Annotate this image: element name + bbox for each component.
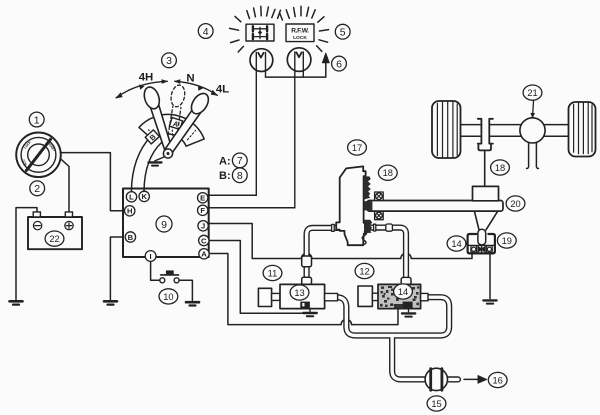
svg-text:14: 14: [398, 287, 408, 297]
svg-text:14: 14: [451, 239, 461, 249]
push switch 10 contacts and plunger: [160, 270, 179, 282]
axle joint flange left "]": [478, 119, 482, 144]
wire: valve 13 to chassis ground: [309, 309, 311, 312]
hose: valve 15 outlet stub: [445, 376, 459, 382]
svg-text:N: N: [186, 73, 194, 85]
arrow: outlet 16 direction: [464, 376, 487, 384]
svg-text:4: 4: [203, 26, 209, 38]
battery terminal nub positive: [65, 212, 72, 217]
wire: terminal F to RFW LOCK bulb: [209, 207, 295, 209]
circled label 14 (front actuator valve): [447, 236, 466, 251]
selector arc N-4L (double arrow): [175, 81, 218, 95]
terminal F: [198, 205, 208, 215]
ground (valve 14): [402, 313, 415, 316]
circled label 11 (valve 13 connector): [263, 265, 282, 280]
wire: shift switch to terminal L: [131, 136, 151, 192]
terminal B: [125, 232, 135, 242]
svg-text:3: 3: [166, 55, 172, 67]
wire: terminal E to 4WD indicator bulb: [209, 194, 257, 196]
wire: bulbs common feed to power arrow 6: [266, 62, 326, 77]
wire: battery negative to chassis ground: [16, 208, 37, 300]
differential output shaft (cut): [527, 142, 539, 168]
switch box A on sector: [169, 118, 182, 131]
solenoid valve 13 connector (item 11): [258, 288, 271, 306]
svg-text:J: J: [201, 222, 205, 231]
hose network white inner strokes: [307, 228, 458, 380]
circled label 10 (push switch): [159, 289, 178, 304]
circled 8: [232, 168, 247, 183]
solenoid valve 14 connector (item 12): [358, 286, 372, 306]
shift lever 4H (left, solid): [142, 85, 172, 150]
circled label 13 (solenoid valve): [290, 285, 309, 300]
front actuator solenoid valve 19 outer box: [468, 234, 495, 253]
ignition switch 1: [16, 133, 61, 178]
indicator lamp box 5 (R.F.W. LOCK): [286, 24, 314, 42]
svg-text:4H: 4H: [139, 72, 154, 84]
svg-text:H: H: [127, 207, 132, 216]
arc arrowheads: [115, 79, 218, 98]
svg-text:L: L: [129, 193, 134, 202]
valve 13 outlet stub: [325, 293, 338, 300]
bulb 5 filament / socket: [295, 52, 304, 208]
solenoid valve 13 body: [280, 284, 325, 308]
4WD icon inside box 4: [253, 26, 267, 39]
circled label 6 (power feed): [332, 56, 347, 71]
svg-text:18: 18: [383, 168, 393, 178]
circled label 22 (battery): [45, 231, 64, 246]
front axle shaft right segment: [545, 125, 569, 137]
valve 13 connector stub: [272, 293, 280, 300]
circled label 15 (one-way valve): [427, 396, 446, 411]
hose flange at housing left port: [332, 224, 335, 231]
terminal A: [199, 249, 209, 259]
wire: terminal I down to push switch 10: [151, 261, 160, 280]
svg-text:I: I: [150, 252, 152, 261]
terminal I: [145, 251, 156, 262]
svg-text:F: F: [200, 206, 205, 215]
shift lever 4L (right, solid): [165, 90, 212, 153]
valve 14 solenoid core (dark mark): [403, 302, 413, 309]
svg-text:R.F.W.: R.F.W.: [291, 28, 309, 35]
svg-text:B:: B:: [219, 170, 231, 182]
svg-text:18: 18: [495, 163, 505, 173]
circled label 3 (shift lever): [162, 53, 177, 68]
shift lever N position (dashed): [166, 84, 186, 148]
circled label 17 (transfer housing): [348, 140, 367, 155]
circled label 4 (4WD lamp): [198, 24, 213, 39]
svg-text:20: 20: [510, 199, 520, 209]
transfer case / free wheel housing 17 : propeller shaft: [367, 201, 503, 212]
indicator bulb for lamp 5: [287, 48, 311, 72]
svg-text:22: 22: [49, 234, 59, 244]
svg-text:4L: 4L: [216, 84, 229, 96]
bearing (lower) with cross: [375, 211, 384, 219]
arrow 6 (power feed): [322, 53, 329, 63]
svg-text:9: 9: [161, 219, 167, 231]
circled label 5 (RFW lock lamp): [335, 24, 350, 39]
terminal E: [198, 193, 208, 203]
front axle right tire: [569, 102, 596, 157]
housing 17 bellows bumps (lower right): [362, 232, 366, 245]
wire: battery positive to ignition switch: [60, 158, 69, 212]
wire/shaft: front axle joint down to actuator 20: [484, 151, 486, 186]
svg-text:5: 5: [340, 27, 346, 39]
wire: valve 14 to chassis ground: [408, 309, 410, 312]
ignition switch key slash: [26, 139, 50, 170]
radiating rays around lamp boxes: [230, 6, 329, 52]
valve 14 connector stub: [372, 293, 378, 300]
wire: terminal C to solenoid valve 13: [209, 241, 303, 314]
svg-text:13: 13: [294, 288, 304, 298]
hose coupler on valve-13 riser (lower): [302, 277, 312, 285]
battery terminal nub negative: [33, 212, 40, 217]
circled label 21 (front differential): [523, 85, 542, 100]
transfer housing 17 main body: [336, 166, 365, 245]
housing 17 spline strip lower: [364, 220, 372, 233]
actuator 20 top box: [473, 186, 499, 200]
svg-text:2: 2: [34, 183, 40, 195]
wire: push switch 10 to chassis ground: [179, 280, 192, 300]
front differential 21: [520, 118, 545, 143]
selector arc 4H-N (double arrow): [116, 81, 167, 97]
housing 17 spline strip middle (behind shaft): [364, 201, 372, 210]
battery negative symbol: [33, 221, 41, 229]
bearing (upper) with cross: [375, 192, 384, 200]
ground (battery negative): [10, 301, 23, 304]
svg-text:17: 17: [352, 143, 362, 153]
svg-text:1: 1: [34, 114, 40, 126]
svg-text:21: 21: [527, 88, 537, 98]
hose: transfer housing left port down to valve 13: [307, 228, 340, 286]
svg-text:C: C: [201, 236, 207, 245]
svg-text:12: 12: [359, 266, 369, 276]
battery 22 body: [28, 217, 82, 249]
hose: tee branch down to one-way valve 15: [392, 337, 428, 380]
svg-text:16: 16: [493, 375, 503, 385]
wire: pivot to chassis ground: [155, 157, 165, 162]
hose coupler on housing right elbow: [386, 224, 393, 231]
svg-text:7: 7: [237, 155, 243, 167]
hose flange at housing right port: [374, 224, 376, 231]
indicator lamp box 4 (4WD icon): [246, 24, 274, 41]
circled label 19 (front actuator valve): [497, 233, 516, 248]
pointer line from label 21 to differential: [531, 101, 535, 118]
hose coupler on valve-14 riser: [401, 277, 411, 285]
circled label 2 (ignition switch circuit): [30, 181, 45, 196]
indicator bulb for lamp 4: [250, 49, 273, 72]
actuator 20 funnel to valve 19: [475, 212, 498, 230]
switch box B on sector: [145, 130, 160, 144]
valve 14 outlet stub: [421, 293, 428, 300]
terminal H: [125, 206, 135, 216]
circled label 18 (front drive shaft): [491, 160, 510, 175]
hose: valve 13 outlet to valve 14 outlet (bottom U run): [337, 297, 449, 335]
terminal J: [198, 221, 208, 231]
svg-text:6: 6: [336, 58, 342, 70]
actuator funnel neck capsule: [478, 229, 486, 245]
terminal L: [126, 192, 136, 202]
front axle left tire: [432, 101, 461, 158]
solenoid valve 14 body (mottled): [378, 284, 421, 308]
valve 19 inner detail: seat line, ports and core: [469, 245, 494, 252]
front axle shaft middle segment: [490, 125, 521, 137]
svg-text:15: 15: [431, 399, 441, 409]
ground (valve 19): [483, 300, 496, 303]
hose coupler on valve-13 riser (upper): [302, 256, 312, 267]
one-way valve 15 body: [425, 368, 447, 390]
ground (valve 13): [303, 313, 316, 316]
wire: control unit terminal B to chassis ground: [110, 237, 123, 300]
axle joint lower cup: [478, 145, 491, 151]
svg-text:B: B: [128, 233, 134, 242]
hose network (vacuum lines, double-line) : black outer strokes: [307, 228, 458, 380]
wire: ignition switch to control unit terminal H: [61, 153, 123, 211]
circled 7: [232, 153, 247, 168]
svg-text:A: A: [201, 250, 207, 259]
terminal C: [199, 235, 209, 245]
svg-text:E: E: [200, 194, 205, 203]
circled label 18 (center actuator): [378, 165, 397, 180]
circled label 16 (outlet): [488, 372, 507, 387]
svg-text:19: 19: [502, 236, 512, 246]
circled label 1 (ignition switch): [29, 112, 44, 127]
ground (terminal B): [104, 301, 117, 304]
svg-text:11: 11: [268, 268, 278, 278]
terminal K: [139, 191, 149, 201]
circled label 12 (valve 14 connector): [355, 263, 374, 278]
svg-text:A:: A:: [219, 155, 231, 167]
control unit 9 box: [123, 189, 209, 258]
circled label 14 (solenoid valve, rear): [394, 284, 413, 299]
wire: terminal J to front actuator solenoid valve 19 (with hose hops): [209, 224, 472, 259]
circled label 20 (front actuator): [506, 196, 525, 211]
svg-text:K: K: [141, 192, 147, 201]
wire: terminal A to solenoid valve 14 (with hose hop): [209, 254, 398, 325]
wire: valve 19 to chassis ground: [489, 254, 491, 299]
housing 17 spline/teeth strip upper: [364, 176, 371, 199]
shift lever sector band: [139, 114, 204, 146]
valve 13 solenoid core (dark mark): [300, 302, 310, 308]
ground (shift lever): [149, 162, 162, 165]
svg-text:LOCK: LOCK: [293, 35, 307, 41]
bulb 4 filament / socket: [256, 52, 265, 195]
circled label 9 (control unit): [156, 216, 172, 232]
svg-text:8: 8: [237, 170, 243, 182]
front axle shaft left segment: [461, 125, 482, 137]
wire: shift switch to terminal K: [144, 143, 162, 192]
axle joint flange right "[": [489, 119, 493, 144]
svg-text:10: 10: [163, 292, 173, 302]
lever pivot: [163, 149, 172, 158]
hose: transfer housing right port down to valve 14: [364, 228, 406, 286]
battery positive symbol: [65, 221, 73, 229]
dotted detent lines in sector: [149, 124, 196, 140]
ground (push switch): [186, 302, 199, 305]
